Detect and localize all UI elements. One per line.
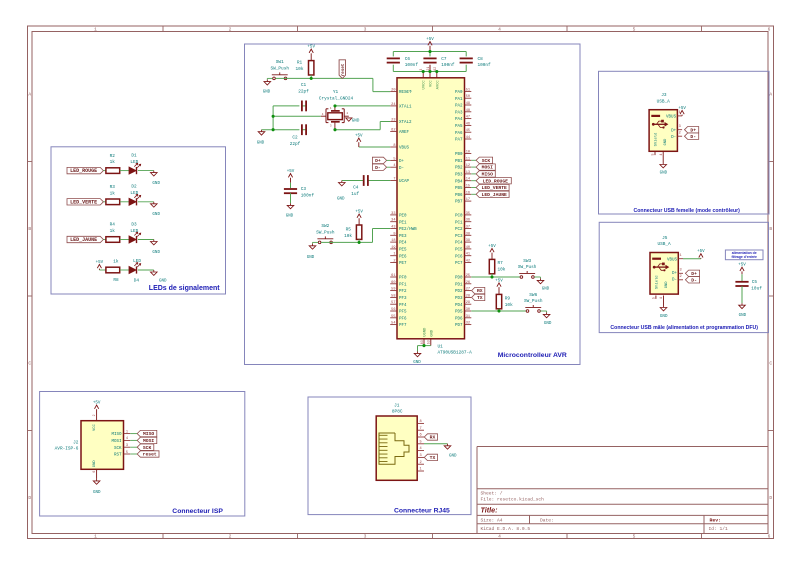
global label RX J1 xyxy=(424,434,437,441)
svg-text:30: 30 xyxy=(466,308,470,312)
svg-text:1k: 1k xyxy=(110,160,116,165)
svg-text:Connecteur USB femelle (mode c: Connecteur USB femelle (mode contrôleur) xyxy=(634,208,741,214)
svg-text:5: 5 xyxy=(633,27,636,33)
wire caps bottom bus to U1 power pins xyxy=(393,65,466,72)
wire D4 to gnd xyxy=(138,269,154,271)
svg-text:PC0: PC0 xyxy=(455,215,463,219)
J1 pin 4 xyxy=(417,447,424,451)
svg-text:D-: D- xyxy=(691,277,697,283)
svg-text:R5: R5 xyxy=(346,228,352,233)
U1 pin 4 D- xyxy=(390,164,404,171)
wire VBUS to +5V xyxy=(359,146,390,148)
wire XTAL2 net xyxy=(262,122,391,130)
global label LED_ROUGE xyxy=(67,167,103,174)
svg-text:100nf: 100nf xyxy=(478,63,492,68)
svg-text:31: 31 xyxy=(466,315,470,319)
svg-text:56: 56 xyxy=(391,308,395,312)
resistor R4 1k xyxy=(103,223,119,243)
U1 pin 9 PE3 xyxy=(390,232,407,239)
svg-text:XTAL2: XTAL2 xyxy=(399,121,412,125)
svg-text:MOSI: MOSI xyxy=(111,440,122,444)
svg-text:1: 1 xyxy=(94,534,97,540)
junction caps bus xyxy=(422,70,439,73)
svg-text:PE7: PE7 xyxy=(399,262,407,266)
U1 pin 23 XTAL2 xyxy=(390,119,412,126)
svg-text:+5V: +5V xyxy=(697,250,705,254)
note box alimentation xyxy=(725,250,763,260)
svg-text:6: 6 xyxy=(768,534,771,540)
J2 VCC pin xyxy=(92,414,96,421)
svg-text:PA2: PA2 xyxy=(455,105,463,109)
U1 pin 43 PE2/HWB xyxy=(390,226,417,233)
wire D2 to gnd xyxy=(138,201,154,203)
svg-text:D3: D3 xyxy=(131,222,137,227)
svg-text:PF1: PF1 xyxy=(399,283,407,287)
svg-text:D: D xyxy=(28,495,31,501)
J2 pin 3 SCK xyxy=(114,444,130,451)
global label LED_VERTE xyxy=(67,199,103,206)
svg-text:42: 42 xyxy=(466,260,470,264)
svg-text:1: 1 xyxy=(393,253,395,257)
crystal Y1 Crystal_GND24 xyxy=(319,90,354,130)
ground SW6 xyxy=(540,311,552,326)
svg-text:62: 62 xyxy=(433,67,437,71)
junction XTAL2 xyxy=(333,128,336,131)
svg-text:MISO: MISO xyxy=(143,431,154,437)
switch SW6 xyxy=(524,293,543,313)
global label D- at U1 xyxy=(372,164,386,171)
svg-text:4: 4 xyxy=(498,534,501,540)
resistor R3 1k xyxy=(103,185,119,205)
U1 pin 57 PF4 xyxy=(390,301,407,308)
row letters xyxy=(28,92,772,502)
svg-text:59: 59 xyxy=(391,288,395,292)
capacitor C2 xyxy=(290,124,306,147)
svg-text:PB5: PB5 xyxy=(455,187,463,191)
svg-text:D+: D+ xyxy=(691,271,697,277)
svg-text:AVR-ISP-6: AVR-ISP-6 xyxy=(55,447,79,452)
U1 pin 27 PD2 xyxy=(455,288,471,295)
svg-text:46: 46 xyxy=(466,122,470,126)
svg-text:C: C xyxy=(28,361,31,367)
svg-text:PA4: PA4 xyxy=(455,118,463,122)
+5V power symbol R1 xyxy=(307,46,315,61)
svg-text:PE5: PE5 xyxy=(399,249,407,253)
capacitor C1 xyxy=(298,83,309,111)
global label MISO J2 xyxy=(137,430,157,437)
svg-text:6: 6 xyxy=(768,27,771,33)
svg-text:16: 16 xyxy=(466,191,470,195)
U1 pin 50 PA1 xyxy=(455,95,471,102)
U1 pin 41 PC6 xyxy=(455,253,471,260)
svg-text:R4: R4 xyxy=(110,223,116,228)
svg-text:4: 4 xyxy=(420,447,422,451)
svg-text:AT90USB1287-A: AT90USB1287-A xyxy=(438,351,473,356)
svg-text:23: 23 xyxy=(391,119,395,123)
svg-text:R2: R2 xyxy=(110,154,116,159)
svg-text:SW1: SW1 xyxy=(276,60,284,65)
U1 pin 60 PF1 xyxy=(390,281,407,288)
svg-text:R1: R1 xyxy=(297,61,303,66)
svg-text:3: 3 xyxy=(364,534,367,540)
ground crystal right xyxy=(346,118,360,124)
U1 pin 15 PB5 xyxy=(455,185,471,192)
U1 pin 30 PD5 xyxy=(455,308,471,315)
+5V power symbol J2 xyxy=(93,401,101,414)
connector J3 USB_A xyxy=(649,93,677,151)
svg-text:26: 26 xyxy=(466,281,470,285)
svg-text:MOSI: MOSI xyxy=(143,438,154,444)
J3 gnd pin xyxy=(659,151,663,162)
U1 pin 36 PC1 xyxy=(455,219,471,226)
svg-text:Size: A4: Size: A4 xyxy=(481,518,503,524)
svg-text:1k: 1k xyxy=(110,229,116,234)
svg-text:33: 33 xyxy=(391,212,395,216)
svg-text:J3: J3 xyxy=(661,93,667,98)
svg-text:10: 10 xyxy=(466,151,470,155)
svg-text:J5: J5 xyxy=(662,236,668,241)
svg-text:LED_ROUGE: LED_ROUGE xyxy=(70,168,97,174)
svg-text:2: 2 xyxy=(229,534,232,540)
resistor R8 1k xyxy=(99,259,119,283)
U1 pin 44 PA7 xyxy=(455,136,471,143)
wire PD0 net xyxy=(471,274,520,277)
resistor R1 xyxy=(296,61,314,75)
U1 pin 31 PD6 xyxy=(455,315,471,322)
svg-text:GND: GND xyxy=(263,90,271,94)
+5V power symbol J3 xyxy=(678,107,686,116)
svg-text:RST: RST xyxy=(114,454,122,458)
svg-text:18: 18 xyxy=(391,239,395,243)
svg-text:8: 8 xyxy=(420,420,422,424)
svg-text:25: 25 xyxy=(466,274,470,278)
capacitor C3 xyxy=(284,183,314,204)
svg-text:SW_Push: SW_Push xyxy=(271,66,290,71)
J2 pin 4 MOSI xyxy=(111,437,130,444)
svg-text:PB2: PB2 xyxy=(455,167,463,171)
title block kicad row xyxy=(481,526,729,532)
svg-text:4: 4 xyxy=(659,154,663,156)
svg-text:B: B xyxy=(28,226,31,232)
global label LED_VERTE at U1 xyxy=(471,184,509,191)
resistor R7 xyxy=(489,259,505,273)
ground LED row 3 xyxy=(151,240,161,255)
J3 shield pin xyxy=(651,151,655,155)
global label LED_JAUNE at U1 xyxy=(471,191,509,198)
svg-text:+5V: +5V xyxy=(355,210,363,214)
svg-text:10k: 10k xyxy=(296,67,304,72)
svg-text:PD7: PD7 xyxy=(455,324,463,328)
LED D2 xyxy=(120,185,141,206)
svg-text:GND: GND xyxy=(257,141,265,145)
svg-text:GND: GND xyxy=(660,172,668,176)
svg-text:47: 47 xyxy=(466,116,470,120)
wire UCAP xyxy=(342,180,390,182)
U1 pin 13 PB3 xyxy=(455,171,471,178)
svg-text:SW_Push: SW_Push xyxy=(316,230,335,235)
ground J1 xyxy=(444,444,457,459)
svg-text:10k: 10k xyxy=(344,234,352,239)
svg-text:reset: reset xyxy=(342,63,346,76)
svg-text:File: resetco.kicad_sch: File: resetco.kicad_sch xyxy=(481,497,545,503)
svg-text:PC7: PC7 xyxy=(455,262,463,266)
svg-text:VBUS: VBUS xyxy=(399,147,410,151)
J2 pin 5 RST xyxy=(114,451,130,458)
U1 pin 12 PB2 xyxy=(455,164,471,171)
svg-text:49: 49 xyxy=(466,102,470,106)
J1 pin 2 xyxy=(417,461,424,465)
svg-text:PD5: PD5 xyxy=(455,311,463,315)
svg-text:GND: GND xyxy=(152,182,160,186)
svg-text:C7: C7 xyxy=(441,57,447,62)
svg-text:PA1: PA1 xyxy=(455,98,463,102)
ground SW1 xyxy=(263,78,273,94)
svg-text:58: 58 xyxy=(391,294,395,298)
svg-text:62: 62 xyxy=(391,128,395,132)
global label TX at U1 xyxy=(472,294,485,301)
svg-text:PB6: PB6 xyxy=(455,194,463,198)
svg-text:21: 21 xyxy=(426,67,430,71)
svg-text:PD0: PD0 xyxy=(455,277,463,281)
J1 pin 1 xyxy=(417,468,424,472)
svg-text:Title:: Title: xyxy=(481,506,499,515)
U1 pin 38 PC3 xyxy=(455,232,471,239)
ground C3 xyxy=(286,203,294,218)
section box Microcontrolleur AVR xyxy=(245,44,581,365)
svg-text:D-: D- xyxy=(671,136,676,140)
svg-text:XTAL1: XTAL1 xyxy=(399,106,412,110)
wire PD5 net xyxy=(471,309,526,311)
U1 pin 35 PC0 xyxy=(455,212,471,219)
svg-text:40: 40 xyxy=(466,246,470,250)
svg-text:LEDs de signalement: LEDs de signalement xyxy=(149,285,220,292)
global label RX at U1 xyxy=(472,287,485,294)
+5V power symbol R9 xyxy=(495,279,503,294)
svg-text:5: 5 xyxy=(393,157,395,161)
svg-text:VCC: VCC xyxy=(430,80,434,88)
U1 pin 14 PB4 xyxy=(455,178,471,185)
svg-text:57: 57 xyxy=(391,301,395,305)
svg-text:C4: C4 xyxy=(353,186,359,191)
wire D- U1 xyxy=(387,166,391,168)
svg-text:C5: C5 xyxy=(752,280,758,285)
svg-text:7: 7 xyxy=(393,178,395,182)
U1 pin 10 PB0 xyxy=(455,151,471,158)
J5 gnd pin xyxy=(659,296,663,306)
J2 pin 1 MISO xyxy=(111,430,130,437)
resistor R2 1k xyxy=(103,154,119,174)
svg-text:PE1: PE1 xyxy=(399,221,407,225)
svg-text:+5V: +5V xyxy=(738,264,746,268)
svg-text:PE4: PE4 xyxy=(399,242,407,246)
svg-text:PD3: PD3 xyxy=(455,297,463,301)
svg-text:C1: C1 xyxy=(301,83,307,88)
U1 pin 54 PF7 xyxy=(390,322,407,329)
junction +5V bus xyxy=(428,50,431,53)
svg-text:Connecteur USB mâle (alimentat: Connecteur USB mâle (alimentation et pro… xyxy=(610,325,758,331)
svg-text:PC6: PC6 xyxy=(455,255,463,259)
svg-text:VBUS: VBUS xyxy=(666,116,677,120)
U1 pin 34 PE1 xyxy=(390,219,407,226)
svg-text:10k: 10k xyxy=(498,268,506,273)
svg-text:PA3: PA3 xyxy=(455,111,463,115)
svg-text:VCC: VCC xyxy=(93,423,97,431)
J3 pin 2 D- xyxy=(677,131,682,136)
U1 pin 8 VBUS xyxy=(390,144,409,151)
svg-text:13: 13 xyxy=(466,171,470,175)
op-amp U1 body AT90USB1287-A xyxy=(397,78,465,339)
svg-text:VBUS: VBUS xyxy=(667,258,678,262)
J5 pin 1 VBUS xyxy=(678,254,683,259)
svg-text:43: 43 xyxy=(391,226,395,230)
svg-text:PB7: PB7 xyxy=(455,201,463,205)
svg-text:GND: GND xyxy=(544,322,552,326)
svg-text:1: 1 xyxy=(94,27,97,33)
svg-text:PE3: PE3 xyxy=(399,235,407,239)
svg-text:GND: GND xyxy=(352,120,360,124)
ground J5 xyxy=(660,306,668,320)
svg-text:44: 44 xyxy=(466,136,470,140)
capacitor C7 xyxy=(423,57,454,68)
svg-text:+5V: +5V xyxy=(678,107,686,111)
svg-text:SCK: SCK xyxy=(143,445,152,451)
svg-text:PB1: PB1 xyxy=(455,160,463,164)
J1 pin 3 xyxy=(417,454,424,458)
U1 pin 18 PE4 xyxy=(390,239,407,246)
svg-text:SW3: SW3 xyxy=(523,259,531,264)
svg-text:54: 54 xyxy=(391,322,395,326)
wire +5V top bus xyxy=(393,52,466,57)
svg-text:6: 6 xyxy=(420,434,422,438)
svg-text:28: 28 xyxy=(466,294,470,298)
U1 pin 62 AREF xyxy=(390,128,409,135)
svg-text:22pf: 22pf xyxy=(290,142,301,147)
svg-text:AVCC: AVCC xyxy=(436,80,440,90)
svg-text:MISO: MISO xyxy=(482,172,493,178)
svg-text:D2: D2 xyxy=(131,185,137,190)
wire XTAL1 net xyxy=(273,106,390,130)
U1 pin 17 PB7 xyxy=(455,198,471,205)
svg-text:55: 55 xyxy=(391,315,395,319)
svg-text:C6: C6 xyxy=(405,57,411,62)
svg-text:PE0: PE0 xyxy=(399,215,407,219)
svg-text:Connecteur ISP: Connecteur ISP xyxy=(172,508,223,515)
svg-text:PC4: PC4 xyxy=(455,242,463,246)
svg-text:C3: C3 xyxy=(301,187,307,192)
svg-text:GND: GND xyxy=(430,329,434,337)
section box Connecteur USB male xyxy=(599,222,768,332)
svg-text:+5V: +5V xyxy=(488,245,496,249)
wire MOSI J2 xyxy=(130,439,137,441)
svg-text:UVCC: UVCC xyxy=(423,80,427,90)
section box Connecteur USB femelle xyxy=(599,71,770,214)
section box Connecteur RJ45 xyxy=(308,397,471,515)
switch SW2 xyxy=(316,224,335,244)
svg-text:PD2: PD2 xyxy=(455,290,463,294)
U1 pin 26 PD1 xyxy=(455,281,471,288)
svg-text:UCAP: UCAP xyxy=(399,180,410,184)
+5V power symbol above decoupling caps xyxy=(426,38,434,52)
global label TX J1 xyxy=(424,454,437,461)
svg-text:R8: R8 xyxy=(113,278,119,283)
svg-text:Rev:: Rev: xyxy=(710,518,722,524)
title block sheet text xyxy=(481,490,545,502)
svg-text:4: 4 xyxy=(393,164,395,168)
svg-text:Microcontrolleur AVR: Microcontrolleur AVR xyxy=(498,352,567,359)
junction shield bus xyxy=(272,115,275,118)
capacitor C4 xyxy=(351,175,368,197)
wire U1 ground net xyxy=(418,346,431,352)
junction gnd bus xyxy=(272,128,275,131)
wire SCK J2 xyxy=(130,446,137,448)
svg-text:PF6: PF6 xyxy=(399,317,407,321)
svg-text:+5V: +5V xyxy=(307,46,315,50)
ground SW3 xyxy=(534,277,550,292)
svg-text:+5V: +5V xyxy=(93,401,101,405)
svg-text:GND: GND xyxy=(413,361,421,365)
svg-text:GND: GND xyxy=(664,138,668,146)
row ticks left/right xyxy=(28,162,774,431)
svg-text:38: 38 xyxy=(466,232,470,236)
svg-text:15: 15 xyxy=(466,185,470,189)
svg-text:PF0: PF0 xyxy=(399,277,407,281)
J1 pin 7 xyxy=(417,427,424,431)
wire J1 pin5 to gnd xyxy=(424,443,448,445)
J3 pin 3 D+ xyxy=(677,125,682,130)
svg-text:Y1: Y1 xyxy=(333,90,339,95)
svg-text:USB_A: USB_A xyxy=(658,242,672,247)
+5V power symbol C5 xyxy=(738,264,746,275)
svg-text:GND: GND xyxy=(449,454,457,458)
ground C5 xyxy=(739,303,747,318)
ground U1 xyxy=(413,351,421,365)
svg-text:R9: R9 xyxy=(505,296,511,301)
svg-text:MISO: MISO xyxy=(111,433,122,437)
svg-text:35: 35 xyxy=(466,212,470,216)
svg-text:LED_ROUGE: LED_ROUGE xyxy=(483,178,509,184)
svg-text:Shield: Shield xyxy=(654,133,659,147)
svg-text:D+: D+ xyxy=(690,127,696,133)
global label D+ at U1 xyxy=(372,157,386,164)
svg-text:GND: GND xyxy=(93,460,97,468)
U1 pin 59 PF2 xyxy=(390,288,407,295)
global label MISO at U1 xyxy=(471,171,495,178)
svg-text:53: 53 xyxy=(427,340,431,344)
svg-text:12: 12 xyxy=(466,164,470,168)
capacitor C6 xyxy=(387,57,419,68)
svg-text:SW6: SW6 xyxy=(529,293,537,298)
U1 pin 29 PD4 xyxy=(455,301,471,308)
svg-text:2: 2 xyxy=(679,131,681,135)
U1 pin 20 RESET xyxy=(390,89,412,96)
U1 pin 42 PC7 xyxy=(455,260,471,267)
svg-text:48: 48 xyxy=(466,109,470,113)
wire RST J2 xyxy=(130,453,137,455)
svg-text:PF4: PF4 xyxy=(399,304,407,308)
svg-text:RX: RX xyxy=(430,435,436,441)
svg-text:24: 24 xyxy=(391,103,395,107)
svg-text:SW_Push: SW_Push xyxy=(518,265,537,270)
ground J2 xyxy=(93,479,101,495)
column ticks top/bottom xyxy=(163,26,702,539)
U1 pin 2 PE7 xyxy=(390,260,407,267)
connector J2 AVR-ISP-6 xyxy=(55,421,124,470)
svg-text:RESET: RESET xyxy=(399,91,412,95)
svg-text:R3: R3 xyxy=(110,185,116,190)
U1 pin 7 UCAP xyxy=(390,178,409,185)
svg-text:2: 2 xyxy=(92,414,96,416)
svg-text:10uf: 10uf xyxy=(751,287,762,292)
